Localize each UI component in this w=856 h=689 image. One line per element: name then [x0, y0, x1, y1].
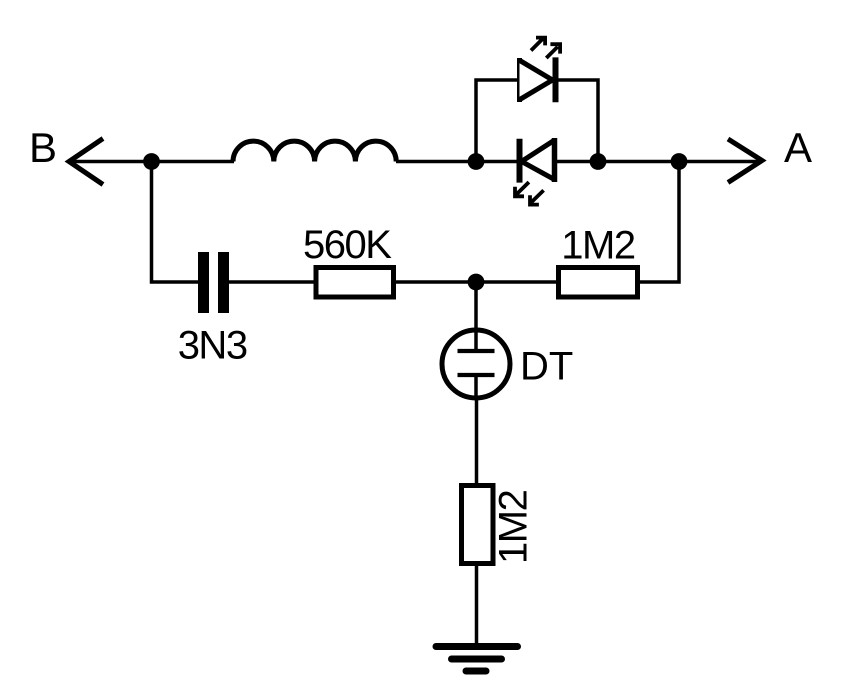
wire L1 to LED node: [396, 160, 476, 164]
junction node LED right: [590, 153, 607, 170]
wire LED node to D2 cathode: [476, 160, 518, 164]
wire R1 to center node: [396, 280, 476, 284]
junction node center: [468, 274, 485, 291]
resistor R1 560K: [316, 268, 394, 298]
wire center node to R2: [476, 280, 558, 284]
port label A: [784, 124, 812, 171]
port A arrow: [728, 139, 762, 183]
discharge tube DT: [442, 330, 510, 398]
resistor R3 1M2 vertical: [462, 486, 494, 564]
wire R2 to A column riser: [640, 162, 679, 283]
wire A column to arrow: [679, 160, 758, 164]
label 3N3: [178, 324, 247, 368]
label 560K: [303, 223, 392, 267]
LED D1 emission arrows: [531, 38, 560, 58]
wire DT to R3: [475, 396, 479, 486]
ground: [436, 647, 518, 672]
LED D2 emission arrows: [515, 182, 544, 205]
port label B: [29, 124, 57, 171]
svg-text:1M2: 1M2: [492, 490, 536, 564]
resistor R2 1M2: [559, 268, 638, 298]
wire LED right node to A column: [598, 160, 680, 164]
label DT: [520, 344, 573, 388]
LED D2 (bottom, cathode left): [520, 138, 555, 183]
port B arrow: [69, 139, 103, 185]
wire C1 to R1: [229, 280, 316, 284]
wire B column down to C1: [152, 162, 200, 283]
LED D1 (top, anode left): [520, 57, 556, 102]
svg-text:3N3: 3N3: [178, 324, 247, 368]
svg-text:B: B: [29, 124, 57, 171]
wire B to L1: [69, 160, 234, 164]
label 1M2 (R3, rotated): [492, 490, 536, 564]
wire R3 to ground: [475, 563, 479, 646]
junction node A column: [671, 153, 688, 170]
svg-text:DT: DT: [520, 344, 573, 388]
junction node left (B column): [143, 153, 160, 170]
inductor L1: [233, 141, 396, 161]
wire D2 to right node: [555, 160, 598, 164]
wire center node to DT: [474, 282, 478, 349]
capacitor C1 plates: [198, 252, 229, 313]
wire top branch right riser: [556, 80, 598, 162]
junction node LED left: [468, 153, 485, 170]
label 1M2 (R2): [561, 224, 635, 268]
svg-text:A: A: [784, 124, 812, 171]
wire top branch left riser: [476, 80, 518, 162]
svg-text:1M2: 1M2: [561, 224, 635, 268]
svg-text:560K: 560K: [303, 223, 392, 267]
